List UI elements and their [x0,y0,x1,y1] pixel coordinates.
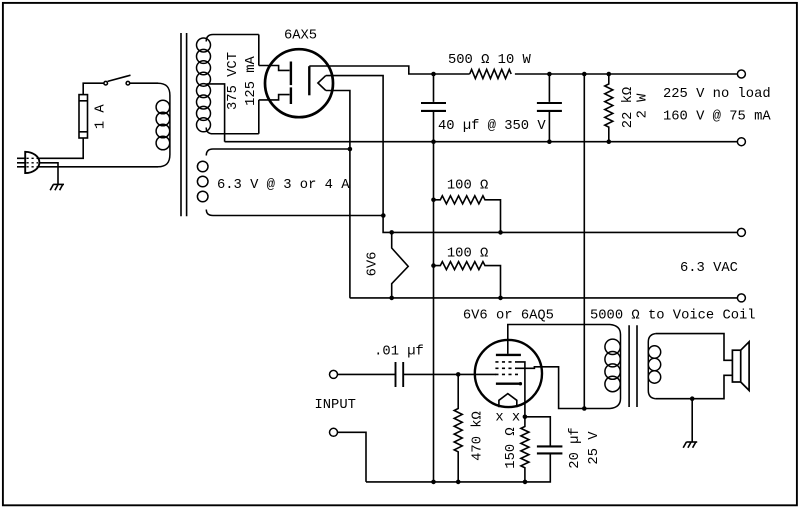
svg-text:375 VCT: 375 VCT [226,52,241,110]
ground return line [366,454,550,482]
transformer T1 core [181,33,187,216]
svg-text:2 W: 2 W [636,93,651,119]
V2 plate lead [508,325,610,354]
resistor 500 ohm [470,70,511,79]
svg-text:.01 µf: .01 µf [374,344,424,360]
junction: grid node (cap / 470k / grid) [456,372,461,377]
6.3VAC rail A [392,231,738,233]
junction: 470k bottom on ground return line [456,480,461,485]
wire HV bottom to plate [259,95,290,100]
output tube V2 envelope [475,340,542,407]
svg-text:6AX5: 6AX5 [284,29,317,44]
capacitor C1 40uF [421,74,446,142]
svg-text:150 Ω: 150 Ω [504,427,519,468]
junction: C2 bottom on B- rail [547,139,552,144]
junction: C1 top on B+ rail [431,72,436,77]
V2 control grid dashes [495,373,518,375]
V2 cathode bar end blob [519,382,522,385]
B- rail from center tap [225,141,738,143]
wire secondary bottom to speaker [656,375,733,398]
V2 beam plate dashes [495,361,518,363]
junction: 6V6 heater bottom on 6.3VAC rail B [389,296,394,301]
junction: speaker return / ground [690,396,695,401]
junction: C2 top on B+ rail [547,72,552,77]
HV center tap wire [207,84,225,142]
capacitor C2 40uF [537,74,562,142]
terminal 6.3VAC A [737,228,745,236]
fuse F1 [79,95,88,138]
junction: ground bus on ground return line [431,480,436,485]
svg-text:22 kΩ: 22 kΩ [620,87,636,128]
U1 cathode bar [308,66,310,95]
wire speaker ground [691,399,693,442]
V2 heater tent [499,394,517,408]
junction: C1 bottom on B- rail [431,139,436,144]
wire switch to primary [130,82,158,84]
T2 secondary [648,334,660,399]
svg-text:1 A: 1 A [94,104,109,130]
wire fuse to switch [83,83,104,94]
terminal B+ [737,70,745,78]
wire filament lead B [326,91,350,298]
junction: 6.3V winding bottom / rectifier heater lead [381,213,386,218]
T2 core [629,325,637,407]
junction: B+ drop wire on B+ rail [582,72,587,77]
U1 plate 1 [290,62,292,86]
ground (AC) [53,183,64,185]
6.3VAC rail B [350,297,738,299]
capacitor .01uF [396,362,404,387]
junction: 100 ohm upper right on 6.3VAC rail A [498,230,503,235]
resistor 470k [454,374,462,482]
wire plug return to transformer primary [39,166,158,168]
V2 screen lead [518,367,610,409]
input terminal hot [330,370,338,378]
svg-text:5000 Ω to Voice Coil: 5000 Ω to Voice Coil [590,307,756,323]
ground bus vertical [433,142,435,482]
junction: 100 ohm upper left on ground bus [431,198,436,203]
wire secondary top to speaker [656,334,733,361]
svg-text:40 µf @ 350 V: 40 µf @ 350 V [438,118,546,134]
svg-text:100 Ω: 100 Ω [447,178,488,193]
svg-text:20 µf: 20 µf [567,427,583,468]
wire input to coupling cap [338,373,395,375]
junction: screen + B+ + OT primary bottom [582,406,587,411]
terminal 6.3VAC B [737,294,745,302]
V2 plate bar [496,354,521,356]
V2 cathode bar [496,383,521,385]
svg-text:225 V no load: 225 V no load [663,86,771,102]
wire plug neutral to ground [39,163,58,185]
wire cathode to 20uF [525,417,550,446]
resistor 22k [605,74,613,142]
svg-text:INPUT: INPUT [315,398,356,413]
svg-text:160 V @ 75 mA: 160 V @ 75 mA [663,109,771,125]
output transformer T2 primary [605,325,621,409]
wire cap to grid [403,373,496,375]
svg-text:500 Ω 10 W: 500 Ω 10 W [448,53,532,68]
svg-text:470 kΩ: 470 kΩ [470,411,486,461]
junction: 22k top on B+ rail [607,72,612,77]
V2 screen grid dashes [495,367,518,369]
junction: cathode node (150 ohm / 20uF) [523,415,528,420]
terminal B- [737,138,745,146]
wire plug hot to fuse [39,138,84,158]
switch S1 [104,75,131,85]
V2 beam plate lead to cathode node [518,362,525,417]
resistor 100 ohm lower [434,262,501,298]
junction: 6.3V winding top / rectifier heater lead [348,147,353,152]
U1 plate 2 [290,87,292,104]
transformer T1 primary coil [156,83,170,167]
resistor 150 ohm [521,417,529,482]
input terminal gnd [330,428,338,436]
junction: 6V6 heater top on 6.3VAC rail A [389,230,394,235]
ground (speaker) [686,441,697,443]
AC plug P1 [17,152,39,173]
B+ rail from cathode [309,66,737,74]
svg-text:x x: x x [495,410,520,425]
svg-text:6V6 or 6AQ5: 6V6 or 6AQ5 [463,308,554,323]
wire filament lead A [326,76,392,233]
junction: 100 ohm lower right on 6.3VAC rail B [498,296,503,301]
svg-text:6.3 VAC: 6.3 VAC [680,261,738,276]
speaker LS1 [732,342,749,391]
wire HV top to plate [259,66,290,71]
junction: 150 ohm bottom on ground return line [523,480,528,485]
wire input gnd down [338,432,366,482]
resistor 100 ohm upper [434,196,501,233]
HV winding right edge [258,35,260,134]
T1 HV secondary winding [197,35,259,134]
6V6 heater element [392,232,409,298]
svg-text:125 mA: 125 mA [244,55,259,105]
svg-text:6.3 V @ 3 or 4 A: 6.3 V @ 3 or 4 A [217,177,350,193]
junction: 100 ohm lower left on ground bus [431,263,436,268]
svg-text:6V6: 6V6 [366,252,381,277]
T1 6.3V winding [197,149,383,216]
capacitor 20uF plates [537,446,563,453]
rectifier tube U1 envelope [265,49,333,117]
junction: 22k bottom on B- rail [607,139,612,144]
svg-text:25 V: 25 V [587,431,602,465]
U1 filament chevron [318,76,326,91]
B+ drop wire to output transformer [583,74,585,409]
svg-text:100 Ω: 100 Ω [447,247,488,262]
